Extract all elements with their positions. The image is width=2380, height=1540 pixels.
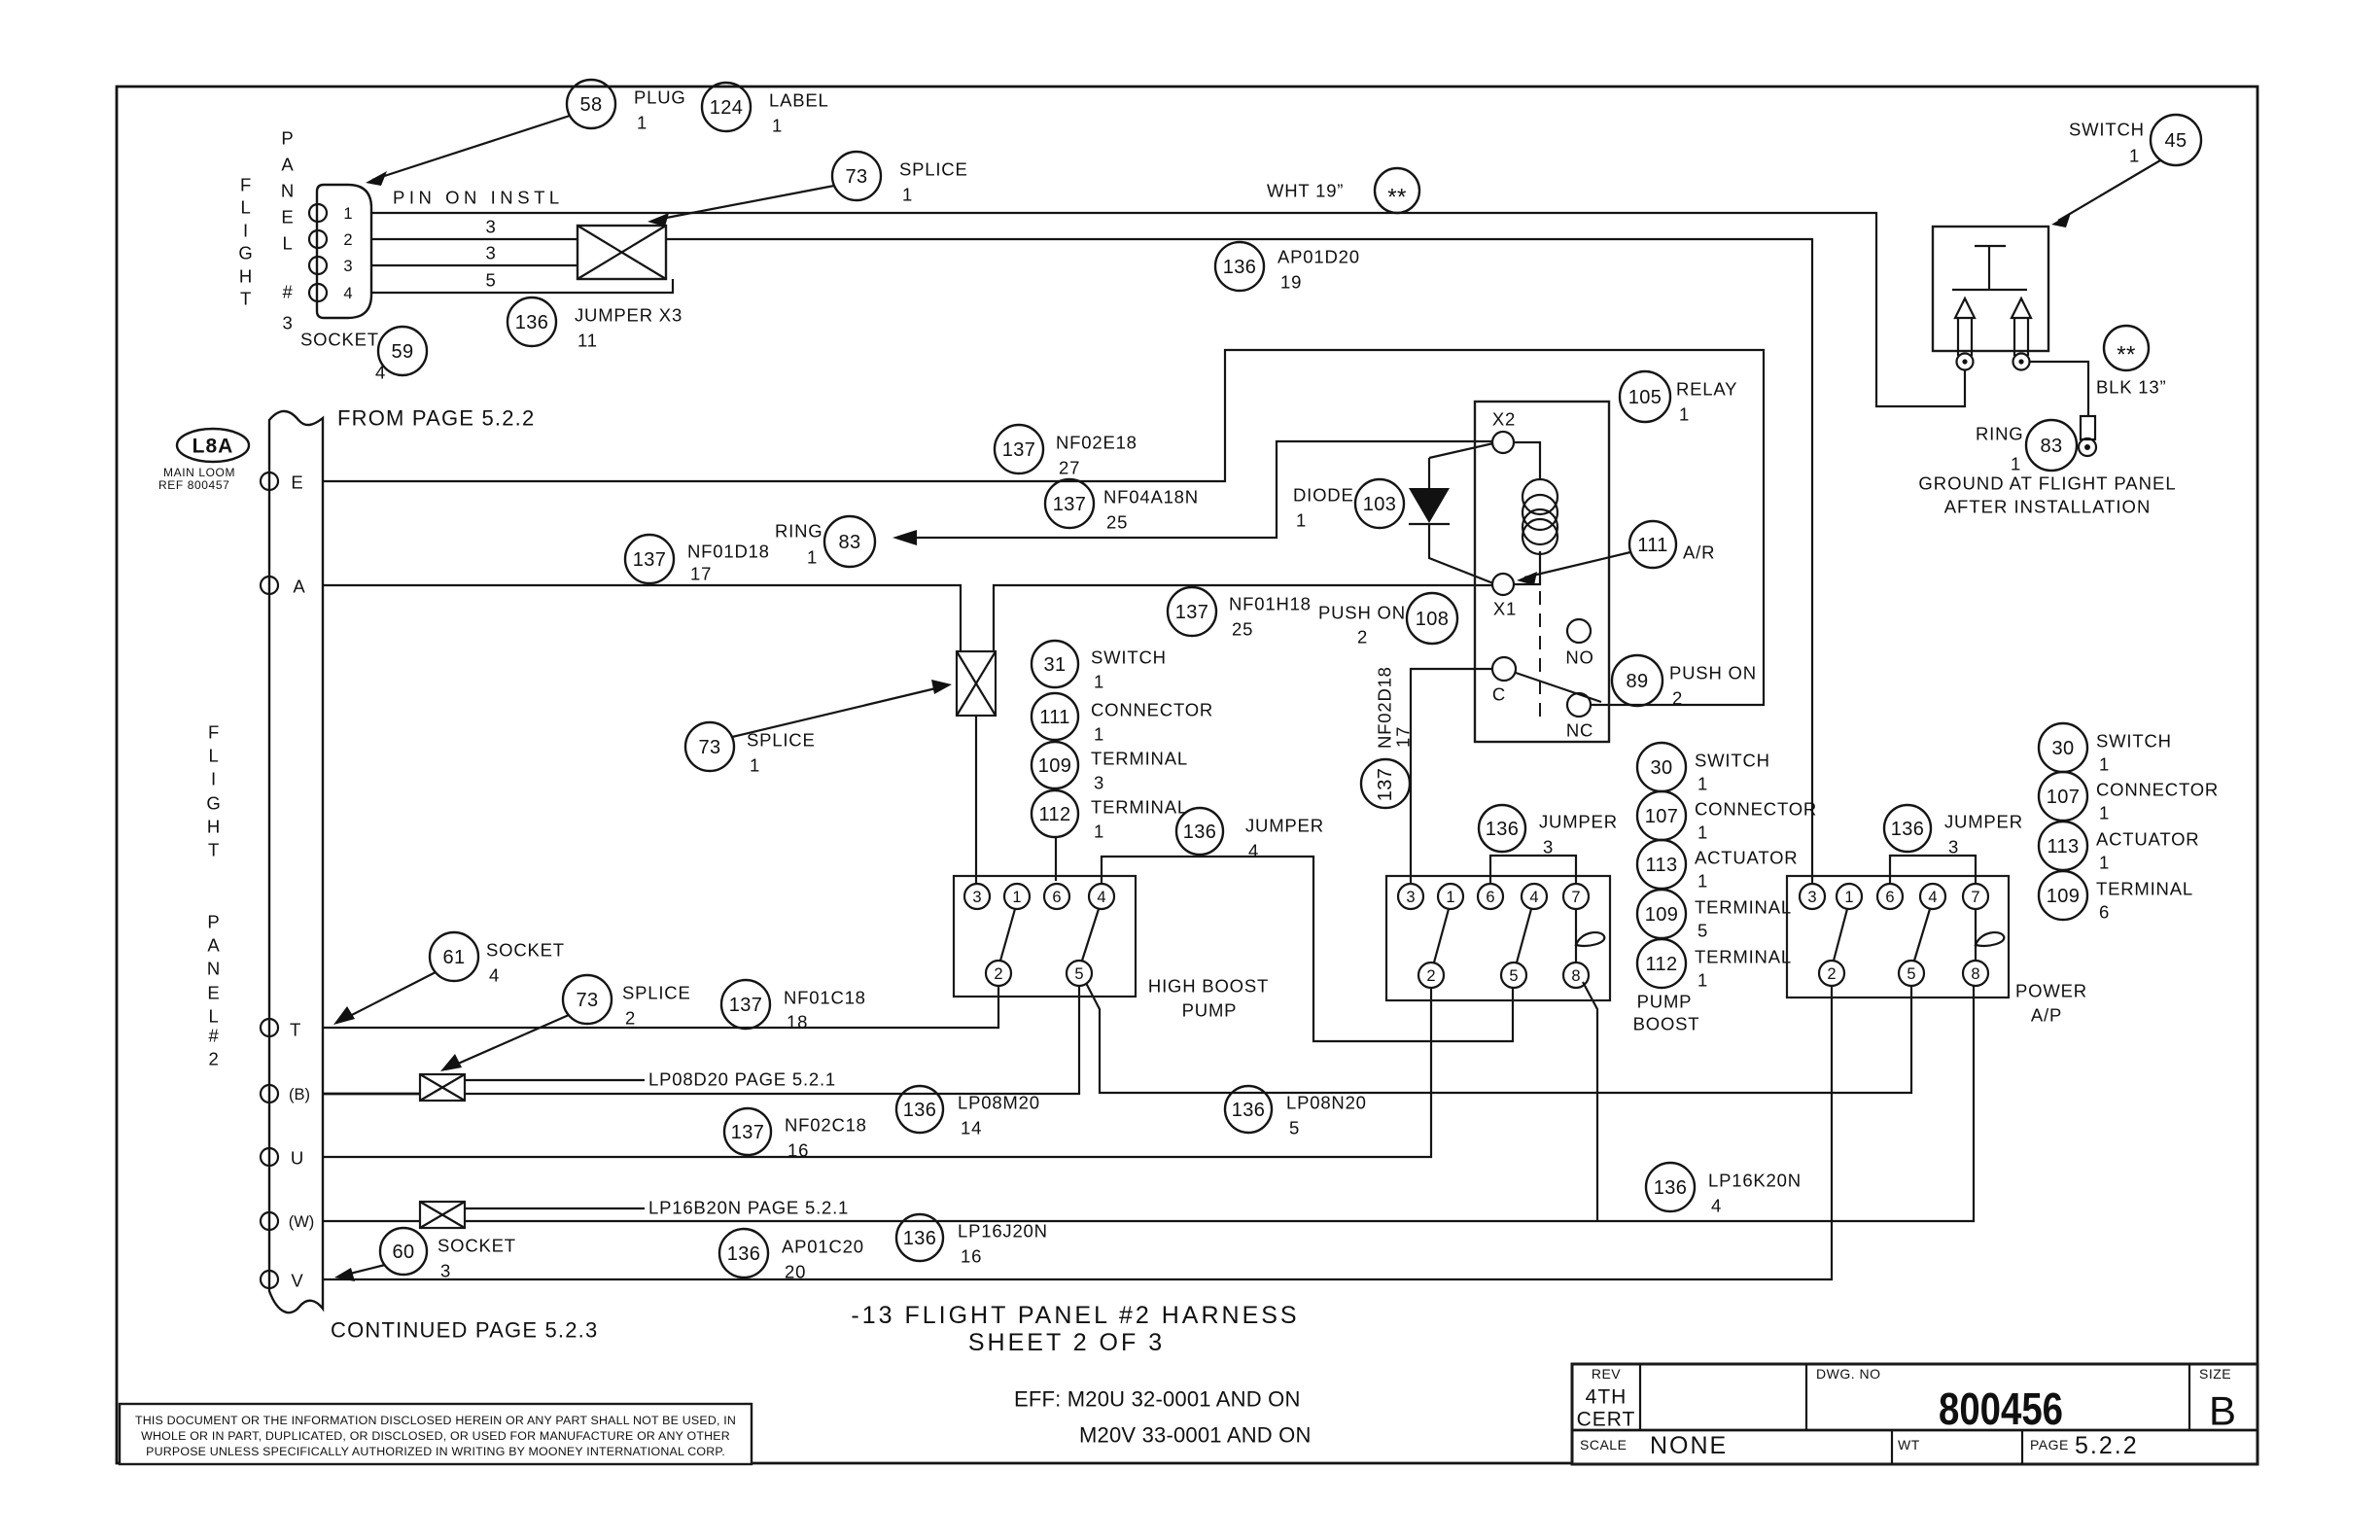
svg-text:WHOLE OR IN PART, DUPLICATED,: WHOLE OR IN PART, DUPLICATED, OR DISCLOS… — [141, 1429, 730, 1443]
pin 1 of FP3 — [309, 204, 353, 223]
svg-text:WT: WT — [1898, 1437, 1920, 1452]
svg-text:1: 1 — [2099, 853, 2110, 873]
svg-text:L: L — [208, 746, 219, 766]
svg-text:BLK 13”: BLK 13” — [2096, 377, 2166, 398]
svg-text:8: 8 — [1971, 965, 1979, 983]
connector HIGH BOOST PUMP box — [954, 876, 1136, 997]
svg-text:27: 27 — [1059, 458, 1080, 478]
svg-text:17: 17 — [1393, 726, 1414, 748]
svg-text:4: 4 — [1097, 889, 1105, 906]
PA pin 2 — [1819, 961, 1844, 986]
splice X3 box — [577, 226, 666, 279]
label POWER A/P — [2015, 981, 2087, 1026]
svg-text:4TH: 4TH — [1586, 1386, 1627, 1409]
disclaimer box — [120, 1404, 752, 1464]
svg-text:73: 73 — [576, 990, 598, 1011]
svg-text:136: 136 — [1486, 819, 1520, 840]
svg-text:4: 4 — [1248, 841, 1259, 861]
svg-text:JUMPER: JUMPER — [1539, 812, 1618, 832]
svg-text:113: 113 — [1645, 855, 1677, 876]
svg-text:137: 137 — [633, 549, 667, 571]
PA internal link 7-8 with loop — [1976, 909, 2004, 961]
svg-text:14: 14 — [961, 1118, 982, 1138]
svg-text:137: 137 — [1002, 439, 1036, 461]
svg-text:F: F — [240, 175, 252, 195]
wire stub LP08D20 — [465, 1079, 645, 1081]
svg-text:4: 4 — [343, 285, 352, 302]
svg-text:P: P — [207, 912, 220, 932]
svg-text:NC: NC — [1566, 720, 1593, 741]
PA pin 6 — [1877, 884, 1903, 909]
svg-text:LP08N20: LP08N20 — [1286, 1093, 1367, 1113]
callout 136 LP16K20N — [1646, 1163, 1802, 1216]
pin (B) of FP2 — [261, 1085, 310, 1103]
svg-text:113: 113 — [2047, 836, 2079, 857]
svg-text:2: 2 — [1672, 688, 1683, 709]
svg-text:30: 30 — [2051, 738, 2074, 759]
svg-text:SHEET 2 OF 3: SHEET 2 OF 3 — [968, 1329, 1165, 1356]
PA internal link 4-5 — [1914, 909, 1930, 961]
svg-text:NF01C18: NF01C18 — [784, 988, 866, 1008]
svg-text:83: 83 — [838, 532, 860, 553]
svg-text:17: 17 — [690, 564, 712, 584]
svg-text:1: 1 — [2011, 454, 2021, 474]
svg-text:SWITCH: SWITCH — [2096, 731, 2172, 752]
PB pin 8 — [1563, 962, 1589, 988]
wire AP01C20 pin V to Power A/P pin2 — [323, 985, 1832, 1279]
svg-text:59: 59 — [391, 341, 413, 363]
svg-text:3: 3 — [485, 243, 496, 263]
svg-text:E: E — [291, 472, 303, 493]
svg-text:31: 31 — [1043, 654, 1066, 676]
label FLIGHT (vertical) — [238, 175, 253, 309]
svg-text:ACTUATOR: ACTUATOR — [1695, 848, 1798, 868]
svg-text:5: 5 — [1907, 965, 1915, 983]
pin V of FP2 — [261, 1271, 304, 1291]
callout 73 SPLICE 2 — [440, 975, 691, 1071]
svg-text:5: 5 — [1289, 1118, 1300, 1138]
svg-text:NF01D18: NF01D18 — [687, 542, 770, 562]
title block PAGE cell — [2030, 1432, 2139, 1459]
HB pin 5 — [1067, 961, 1092, 986]
wire (W) pin to splice — [323, 1220, 420, 1222]
svg-text:2: 2 — [1827, 965, 1836, 983]
svg-text:112: 112 — [1645, 954, 1677, 975]
svg-text:TERMINAL: TERMINAL — [1091, 749, 1188, 769]
svg-text:G: G — [238, 243, 253, 263]
svg-text:H: H — [207, 817, 221, 837]
svg-text:136: 136 — [1654, 1177, 1688, 1199]
svg-text:6: 6 — [2099, 902, 2110, 923]
svg-text:A/R: A/R — [1683, 542, 1715, 563]
svg-text:1: 1 — [1012, 889, 1021, 906]
svg-text:1: 1 — [1697, 970, 1708, 991]
title block SCALE cell — [1580, 1432, 1728, 1459]
svg-text:G: G — [206, 793, 221, 814]
PB pin 4 — [1522, 884, 1547, 909]
callout column 30/107/113/109/112 (PB) — [1637, 743, 1817, 991]
callout column 31/111/109/112 — [1032, 641, 1213, 842]
svg-text:2: 2 — [343, 231, 352, 249]
PA pin 5 — [1899, 961, 1924, 986]
svg-text:TERMINAL: TERMINAL — [2096, 879, 2193, 899]
svg-text:2: 2 — [208, 1049, 219, 1069]
svg-text:SWITCH: SWITCH — [1695, 751, 1770, 771]
svg-text:GROUND AT FLIGHT PANEL: GROUND AT FLIGHT PANEL — [1918, 473, 2176, 494]
jumper J4 High Boost pin4 to U net — [1102, 857, 1513, 1041]
svg-text:PAGE: PAGE — [2030, 1437, 2069, 1452]
svg-text:RELAY: RELAY — [1676, 379, 1737, 400]
svg-text:POWER: POWER — [2015, 981, 2087, 1001]
svg-text:PIN ON INSTL: PIN ON INSTL — [393, 188, 560, 208]
callout 136 JUMPER 3 (PA) — [1884, 805, 2023, 857]
svg-text:A: A — [281, 155, 294, 175]
svg-text:136: 136 — [515, 312, 549, 333]
svg-text:136: 136 — [1232, 1100, 1266, 1121]
svg-text:73: 73 — [698, 737, 720, 758]
svg-text:T: T — [240, 289, 252, 309]
svg-text:1: 1 — [902, 185, 913, 205]
callout 108 PUSH ON — [1318, 593, 1457, 647]
svg-text:2: 2 — [994, 965, 1002, 983]
callout 136 JUMPER 4 — [1176, 808, 1324, 861]
splice SP73-1 on A wire — [957, 651, 996, 716]
svg-text:3: 3 — [1094, 773, 1104, 793]
svg-text:1: 1 — [1679, 404, 1690, 425]
svg-text:105: 105 — [1628, 387, 1662, 408]
svg-text:NF01H18: NF01H18 — [1229, 594, 1312, 614]
svg-text:5: 5 — [1697, 921, 1708, 941]
pin A of FP2 — [261, 577, 306, 597]
pin 4 of FP3 — [309, 284, 353, 302]
svg-text:LP08M20: LP08M20 — [958, 1093, 1040, 1113]
pin 3 of FP3 — [309, 257, 353, 275]
wire BLK 13 to ground ring — [2030, 362, 2088, 416]
wire (B) pin to splice — [323, 1093, 420, 1096]
switch S45 box — [1933, 227, 2048, 351]
PB pin 6 — [1478, 884, 1503, 909]
callout ** (wht wire) — [1375, 168, 1419, 213]
svg-text:L8A: L8A — [192, 436, 234, 458]
HB internal link 1-2 — [1000, 909, 1015, 961]
wire LP16J20N W row to Power A/P pin8 — [465, 986, 1974, 1221]
svg-text:7: 7 — [1971, 889, 1979, 906]
svg-text:L: L — [240, 197, 251, 218]
svg-text:1: 1 — [772, 116, 783, 136]
pin (W) of FP2 — [261, 1212, 314, 1231]
svg-text:P: P — [281, 128, 294, 149]
svg-text:4: 4 — [375, 363, 386, 383]
svg-text:THIS DOCUMENT OR THE INFORMATI: THIS DOCUMENT OR THE INFORMATION DISCLOS… — [135, 1414, 736, 1427]
relay dashed divider — [1539, 591, 1541, 720]
callout 103 DIODE — [1293, 479, 1404, 531]
svg-text:5: 5 — [485, 270, 496, 291]
svg-text:H: H — [239, 266, 253, 287]
relay contact C — [1492, 657, 1516, 705]
ring terminal R83 — [2079, 416, 2096, 456]
svg-text:AFTER INSTALLATION: AFTER INSTALLATION — [1944, 497, 2152, 517]
svg-text:137: 137 — [731, 1122, 765, 1143]
callout 83 RING (stub) — [775, 516, 875, 568]
label L8A main loom — [158, 429, 249, 492]
PB pin 1 — [1438, 884, 1463, 909]
PB pin 3 — [1398, 884, 1423, 909]
svg-text:3: 3 — [1543, 837, 1554, 857]
callout 137 NF01C18 — [721, 980, 866, 1032]
PA internal link 1-2 — [1834, 909, 1847, 961]
svg-text:NF02C18: NF02C18 — [785, 1115, 867, 1136]
callout 124 LABEL — [702, 83, 829, 136]
svg-text:2: 2 — [1357, 627, 1368, 647]
svg-text:1: 1 — [1844, 889, 1853, 906]
relay terminal X2 — [1492, 409, 1516, 454]
callout 59 SOCKET 4 — [300, 327, 427, 383]
svg-text:I: I — [211, 769, 217, 789]
svg-text:1: 1 — [637, 113, 647, 133]
svg-text:X1: X1 — [1493, 599, 1517, 619]
callout 136 JUMPER X3 — [507, 297, 682, 351]
svg-text:1: 1 — [2129, 146, 2140, 166]
HB pin 2 — [986, 961, 1011, 986]
svg-text:2: 2 — [1426, 967, 1435, 985]
svg-text:F: F — [208, 722, 220, 743]
PB internal link 4-5 — [1517, 909, 1531, 962]
svg-text:CONNECTOR: CONNECTOR — [1091, 700, 1213, 720]
svg-text:PLUG: PLUG — [634, 87, 686, 108]
svg-text:1: 1 — [343, 205, 352, 223]
svg-text:3: 3 — [1807, 889, 1816, 906]
svg-text:136: 136 — [727, 1243, 761, 1265]
svg-text:5: 5 — [1074, 965, 1083, 983]
jumper J3 Power A/P 6-7 — [1890, 856, 1976, 883]
PB pin 5 — [1501, 962, 1526, 988]
svg-text:SIZE: SIZE — [2199, 1366, 2231, 1382]
svg-text:108: 108 — [1416, 609, 1450, 630]
svg-text:136: 136 — [1223, 257, 1257, 278]
svg-text:111: 111 — [1637, 535, 1668, 556]
svg-text:8: 8 — [1571, 967, 1580, 985]
svg-text:16: 16 — [787, 1140, 809, 1161]
svg-text:I: I — [243, 221, 249, 241]
wire pin1 to WHT 19 run — [371, 213, 1965, 406]
svg-text:NF02D18: NF02D18 — [1375, 666, 1395, 749]
svg-text:83: 83 — [2040, 436, 2062, 457]
svg-text:LP16B20N PAGE 5.2.1: LP16B20N PAGE 5.2.1 — [648, 1198, 849, 1218]
svg-text:25: 25 — [1232, 619, 1253, 640]
svg-text:TERMINAL: TERMINAL — [1695, 947, 1792, 967]
svg-text:107: 107 — [2047, 787, 2081, 808]
title block REV cell — [1577, 1366, 1636, 1431]
svg-text:CERT: CERT — [1577, 1409, 1636, 1431]
connector J-FP2 FLIGHT PANEL #2 body (torn bar) — [269, 411, 323, 1312]
svg-text:NONE: NONE — [1650, 1432, 1728, 1459]
svg-text:7: 7 — [1571, 889, 1580, 906]
svg-text:SPLICE: SPLICE — [747, 730, 816, 751]
wire LP08M20 B row to High Boost pin5 — [465, 987, 1079, 1094]
svg-text:N: N — [281, 181, 295, 201]
svg-text:#: # — [282, 282, 293, 302]
svg-text:PUMP: PUMP — [1637, 992, 1693, 1012]
svg-text:30: 30 — [1650, 757, 1672, 779]
svg-text:TERMINAL: TERMINAL — [1695, 897, 1792, 918]
svg-text:1: 1 — [1094, 822, 1104, 842]
svg-text:NO: NO — [1565, 647, 1593, 668]
svg-text:DIODE: DIODE — [1293, 485, 1354, 506]
svg-text:6: 6 — [1885, 889, 1894, 906]
svg-text:T: T — [290, 1020, 301, 1040]
svg-text:RING: RING — [1976, 424, 2023, 444]
svg-text:FROM PAGE 5.2.2: FROM PAGE 5.2.2 — [337, 406, 535, 431]
svg-text:T: T — [208, 840, 220, 860]
wire NF04A18N ring stub to X2 — [892, 441, 1491, 545]
svg-text:137: 137 — [1175, 602, 1209, 623]
svg-text:1: 1 — [1697, 822, 1708, 843]
svg-text:4: 4 — [1529, 889, 1538, 906]
svg-text:4: 4 — [489, 965, 500, 986]
callout 136 JUMPER 3 (PB) — [1479, 805, 1618, 857]
svg-text:109: 109 — [1038, 755, 1072, 777]
svg-text:SOCKET: SOCKET — [437, 1236, 516, 1256]
svg-text:PUSH ON: PUSH ON — [1318, 603, 1406, 623]
wire NF01C18 pin T to High Boost pin2 — [323, 987, 998, 1028]
svg-text:EFF: M20U 32-0001 AND ON: EFF: M20U 32-0001 AND ON — [1014, 1387, 1301, 1412]
wire AP01D20 from splice to Power A/P pin3 — [666, 239, 1812, 883]
svg-text:DWG. NO: DWG. NO — [1816, 1366, 1881, 1382]
svg-text:112: 112 — [1038, 804, 1070, 825]
wire NF02D18 relay C to Pump Boost pin3 — [1411, 669, 1493, 883]
relay K105 box — [1475, 402, 1609, 742]
PB pin 7 — [1563, 884, 1589, 909]
svg-text:103: 103 — [1363, 494, 1397, 515]
callout 137 NF02C18 — [724, 1108, 867, 1161]
svg-text:136: 136 — [1183, 822, 1217, 843]
svg-text:(B): (B) — [289, 1086, 310, 1103]
svg-text:LP08D20 PAGE 5.2.1: LP08D20 PAGE 5.2.1 — [648, 1069, 836, 1090]
svg-text:JUMPER X3: JUMPER X3 — [575, 305, 682, 326]
callout 89 PUSH ON — [1612, 655, 1757, 709]
svg-text:136: 136 — [903, 1228, 937, 1249]
callout 136 LP16J20N — [896, 1214, 1048, 1267]
label HIGH BOOST PUMP — [1148, 976, 1269, 1021]
svg-text:JUMPER: JUMPER — [1245, 816, 1324, 836]
svg-text:MAIN LOOM: MAIN LOOM — [163, 466, 235, 479]
callout 60 SOCKET 3 — [334, 1228, 516, 1281]
label FLIGHT PANEL #2 (vertical) — [206, 722, 221, 1069]
callout 136 AP01C20 — [719, 1229, 864, 1282]
callout 137 NF02D18 (rotated) — [1361, 666, 1414, 808]
PA pin 3 — [1800, 884, 1825, 909]
callout 58 PLUG — [366, 80, 686, 186]
wire splice to High Boost pin3 — [975, 716, 977, 883]
label PANEL #3 (vertical) — [281, 128, 295, 333]
HB pin 6 — [1044, 884, 1069, 909]
svg-text:25: 25 — [1106, 512, 1128, 533]
svg-text:LP16K20N: LP16K20N — [1708, 1171, 1802, 1191]
svg-text:1: 1 — [807, 547, 818, 568]
callout 137 NF01D18 — [625, 535, 770, 584]
svg-text:4: 4 — [1928, 889, 1937, 906]
wire LP08N20 High Boost pin5 to Power A/P pin5 — [1086, 983, 1911, 1093]
PA pin 8 — [1963, 961, 1988, 986]
leader 112 to pin6 — [1055, 838, 1057, 881]
svg-text:60: 60 — [392, 1242, 414, 1263]
svg-text:RING: RING — [775, 521, 822, 542]
svg-text:CONNECTOR: CONNECTOR — [1695, 799, 1817, 820]
svg-text:124: 124 — [710, 97, 744, 119]
callout 136 LP08M20 — [896, 1086, 1040, 1138]
switch terminal right (spade) — [2012, 298, 2031, 370]
svg-text:1: 1 — [2099, 754, 2110, 775]
svg-text:4: 4 — [1711, 1196, 1722, 1216]
svg-text:89: 89 — [1626, 671, 1648, 692]
pin 2 of FP3 — [309, 230, 353, 249]
svg-text:JUMPER: JUMPER — [1944, 812, 2023, 832]
callout 45 SWITCH — [2051, 115, 2201, 227]
wire NF02E18 pin E to relay NC loop — [323, 350, 1764, 705]
HB pin 1 — [1004, 884, 1030, 909]
svg-text:SPLICE: SPLICE — [622, 983, 691, 1003]
PB pin 2 — [1418, 962, 1444, 988]
PA pin 1 — [1837, 884, 1862, 909]
pin T of FP2 — [261, 1019, 301, 1040]
svg-text:137: 137 — [1375, 768, 1396, 802]
svg-text:(W): (W) — [289, 1213, 315, 1231]
connector PUMP BOOST box — [1386, 876, 1610, 1000]
svg-text:136: 136 — [903, 1100, 937, 1121]
wire stub LP16B20N — [465, 1207, 645, 1209]
PA pin 4 — [1920, 884, 1945, 909]
svg-text:BOOST: BOOST — [1633, 1014, 1700, 1034]
svg-text:PURPOSE UNLESS SPECIFICALLY AU: PURPOSE UNLESS SPECIFICALLY AUTHORIZED I… — [146, 1445, 725, 1458]
svg-text:1: 1 — [1094, 672, 1104, 692]
svg-text:18: 18 — [787, 1012, 808, 1032]
callout 83 RING (ground) — [1976, 420, 2077, 474]
svg-text:WHT 19”: WHT 19” — [1267, 181, 1344, 201]
svg-text:3: 3 — [485, 217, 496, 237]
svg-text:B: B — [2209, 1388, 2236, 1434]
callout 137 NF02E18 — [995, 425, 1137, 478]
svg-text:LABEL: LABEL — [769, 90, 829, 111]
svg-text:A: A — [293, 577, 305, 597]
svg-text:5.2.2: 5.2.2 — [2075, 1432, 2139, 1459]
svg-text:109: 109 — [2047, 886, 2081, 907]
svg-text:-13 FLIGHT PANEL #2 HARNESS: -13 FLIGHT PANEL #2 HARNESS — [851, 1302, 1299, 1329]
svg-text:73: 73 — [845, 166, 867, 188]
PA pin 7 — [1963, 884, 1988, 909]
svg-text:6: 6 — [1052, 889, 1061, 906]
splice SP73-2a box on B row — [420, 1074, 465, 1101]
svg-text:E: E — [281, 207, 294, 227]
svg-text:137: 137 — [1053, 494, 1087, 515]
callout 61 SOCKET 4 — [333, 932, 565, 1025]
pin E of FP2 — [261, 472, 304, 493]
callout 73 SPLICE (A row) — [685, 680, 952, 776]
jumper J3 Pump Boost 6-7 — [1490, 856, 1576, 883]
svg-text:3: 3 — [1406, 889, 1415, 906]
svg-text:AP01D20: AP01D20 — [1277, 247, 1360, 267]
svg-text:SCALE: SCALE — [1580, 1437, 1627, 1452]
callout column 30/107/113/109 (PA) — [2039, 723, 2219, 923]
callout 111 A/R — [1517, 521, 1715, 585]
svg-text:61: 61 — [442, 947, 465, 968]
svg-text:CONNECTOR: CONNECTOR — [2096, 780, 2219, 800]
svg-text:X2: X2 — [1492, 409, 1516, 430]
svg-text:2: 2 — [625, 1008, 636, 1029]
svg-text:PUSH ON: PUSH ON — [1669, 663, 1757, 683]
switch S45 toggle symbol — [1952, 246, 2027, 290]
svg-text:N: N — [207, 959, 221, 979]
wire pin2 into splice X3 — [371, 238, 577, 240]
